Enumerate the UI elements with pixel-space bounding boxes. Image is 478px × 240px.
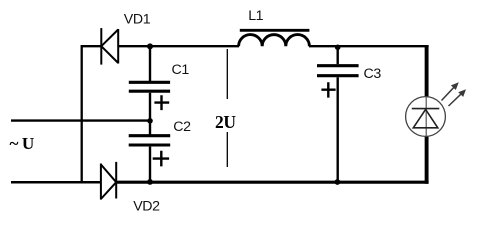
svg-text:C3: C3	[364, 66, 382, 82]
svg-text:C2: C2	[173, 119, 191, 135]
svg-text:L1: L1	[248, 8, 263, 24]
svg-text:~ U: ~ U	[10, 134, 34, 153]
svg-text:2U: 2U	[215, 112, 236, 132]
svg-text:VD2: VD2	[133, 198, 160, 214]
svg-text:VD1: VD1	[124, 12, 151, 28]
svg-text:C1: C1	[172, 62, 190, 78]
